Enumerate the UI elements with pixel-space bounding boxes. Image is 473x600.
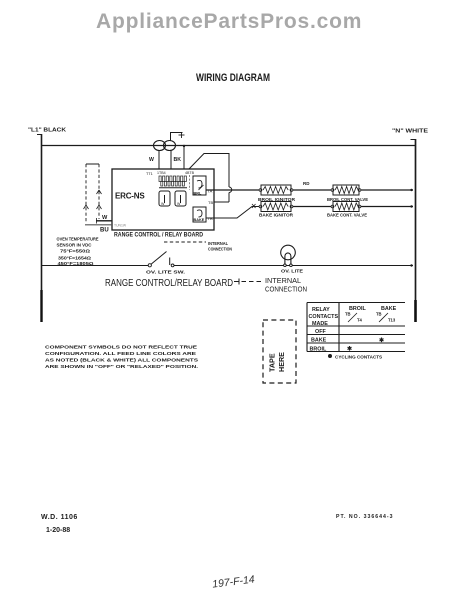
internal connection legend small (164, 241, 232, 252)
svg-text:ARE SHOWN IN "OFF" OR "RE: ARE SHOWN IN "OFF" OR "RELAXED" POSITION… (45, 364, 199, 370)
svg-text:RANGE CONTROL / RELAY BOARD: RANGE CONTROL / RELAY BOARD (114, 233, 204, 239)
svg-text:TB: TB (345, 312, 351, 317)
svg-text:CYCLING CONTACTS: CYCLING CONTACTS (335, 355, 382, 360)
note cycling contacts (328, 354, 382, 360)
svg-text:BAKE: BAKE (194, 218, 205, 222)
svg-text:TA: TA (208, 189, 213, 194)
node N label (392, 129, 428, 135)
lamp DS1 oven lite (281, 245, 296, 266)
table header bake TB/T13 (376, 306, 397, 323)
svg-text:BK: BK (174, 157, 182, 163)
wire board top to bus riser (189, 154, 232, 203)
svg-text:W: W (149, 157, 154, 163)
table header broil TB/T4 (345, 306, 366, 323)
legend internal connection text (265, 276, 307, 294)
svg-text:CONNECTION: CONNECTION (265, 285, 307, 294)
label broil control valve (327, 197, 368, 202)
note W.D. 1106 (41, 514, 78, 534)
relay board label (114, 233, 204, 239)
svg-text:T13: T13 (388, 318, 396, 323)
svg-text:CONFIGURATION. ALL FEED LIN: CONFIGURATION. ALL FEED LINE COLORS ARE (45, 351, 197, 357)
wire W drop to board (158, 151, 160, 170)
svg-text:T4: T4 (357, 318, 363, 323)
wire top feed horizontal (41, 145, 415, 147)
svg-text:TB: TB (376, 312, 382, 317)
note oven temperature sensor values (57, 237, 99, 267)
switch S1 oven lite (148, 252, 174, 267)
title WIRING DIAGRAM (196, 72, 270, 84)
svg-text:75°F=550Ω: 75°F=550Ω (60, 249, 90, 254)
label ERC-NS (115, 192, 145, 201)
svg-text:BAKE: BAKE (381, 306, 397, 312)
wire broil row left (206, 189, 259, 191)
plug P1 (159, 191, 170, 206)
wire sensor BU lead (85, 224, 127, 234)
wire bake row mid (293, 206, 331, 208)
wire BK drop to board (170, 151, 172, 170)
wire bake relay output diagonal (206, 204, 259, 218)
svg-text:"L1" BLACK: "L1" BLACK (28, 128, 67, 134)
table row BROIL with mark (310, 346, 353, 353)
svg-text:AS NOTED (BLACK & WHITE): AS NOTED (BLACK & WHITE) ALL COMPONENTS (45, 358, 199, 364)
svg-text:W: W (161, 202, 165, 206)
node L1 label (28, 128, 67, 134)
wire feed drop at board right (183, 145, 185, 169)
table header relay contacts made (309, 307, 339, 327)
svg-text:1TB4: 1TB4 (157, 171, 166, 175)
svg-text:HERE: HERE (277, 352, 286, 372)
resistor broil control valve (331, 185, 361, 195)
terminal TB mid (208, 200, 213, 205)
svg-text:OV. LITE: OV. LITE (281, 269, 304, 275)
resistor bake ignitor (259, 202, 293, 212)
relay contacts table frame (307, 303, 405, 352)
svg-text:450°F=1805Ω: 450°F=1805Ω (58, 261, 94, 266)
relay board U1 outline (112, 169, 214, 230)
svg-text:ERC-NS: ERC-NS (115, 192, 145, 201)
label broil ignitor (258, 197, 296, 202)
svg-text:RD: RD (303, 181, 310, 186)
svg-text:✱: ✱ (347, 346, 352, 353)
svg-text:OVEN TEMPERATURE: OVEN TEMPERATURE (57, 237, 99, 242)
svg-text:4BTB: 4BTB (185, 171, 195, 175)
tape here dashed box (263, 320, 296, 383)
wire stub to chassis mark (171, 132, 185, 141)
svg-text:BAKE: BAKE (311, 338, 327, 344)
svg-text:OV. LITE SW.: OV. LITE SW. (146, 270, 185, 276)
svg-text:TAPE: TAPE (268, 353, 277, 372)
resistor broil ignitor (259, 185, 293, 195)
relay K1 BROIL (193, 176, 206, 196)
relay K2 BAKE (193, 207, 206, 222)
wire broil row right to N (361, 189, 413, 191)
wire broil row mid with RD label (293, 181, 331, 190)
svg-text:AppliancePartsPros.com: AppliancePartsPros.com (96, 10, 362, 33)
legend range control relay board (105, 278, 233, 289)
svg-text:PT. NO. 336644-3: PT. NO. 336644-3 (336, 514, 394, 520)
terminal TB lower (208, 216, 213, 221)
plug P2 (175, 191, 186, 206)
sensor RT1 oven temperature dashed probe (84, 164, 102, 222)
svg-text:"N" WHITE: "N" WHITE (392, 129, 428, 135)
svg-text:CONTACTS: CONTACTS (309, 314, 339, 320)
svg-text:BU: BU (100, 228, 109, 234)
svg-text:CONNECTION: CONNECTION (208, 247, 232, 252)
svg-text:197-F-14: 197-F-14 (212, 574, 256, 591)
wire sensor W lead (96, 215, 112, 224)
svg-text:BAKE CONT. VALVE: BAKE CONT. VALVE (327, 213, 367, 218)
svg-text:BROIL: BROIL (349, 306, 366, 312)
label bake control valve (327, 213, 367, 218)
connector J1 pin strip (146, 171, 195, 190)
label oven lite switch (146, 270, 185, 276)
svg-text:MADE: MADE (312, 321, 328, 327)
wire oven lite line horizontal (41, 265, 413, 267)
svg-text:TB: TB (208, 200, 213, 205)
wire bake row right to N (361, 205, 413, 207)
svg-text:W: W (102, 215, 108, 221)
label oven lite (281, 269, 304, 275)
note PT. NO. 336644-3 (336, 514, 394, 520)
wire L1 vertical bus (37, 134, 42, 322)
svg-text:COMPONENT SYMBOLS DO NOT R: COMPONENT SYMBOLS DO NOT REFLECT TRUE (45, 345, 198, 351)
svg-text:W: W (177, 202, 181, 206)
label BK (174, 157, 182, 163)
svg-text:W.D. 1106: W.D. 1106 (41, 514, 78, 521)
wire N vertical bus (411, 139, 416, 322)
wire ov lite line junction at N (410, 264, 412, 266)
table row OFF (315, 329, 326, 335)
watermark AppliancePartsPros.com (96, 10, 362, 33)
svg-text:BRL: BRL (194, 192, 202, 196)
note component symbols (45, 345, 199, 371)
label W (149, 157, 154, 163)
svg-text:RELAY: RELAY (312, 307, 330, 313)
handwritten 197-F-14 (212, 574, 256, 591)
wire terminal TB mid to riser (214, 201, 229, 203)
svg-text:RANGE CONTROL/RELAY BOARD: RANGE CONTROL/RELAY BOARD (105, 278, 233, 289)
svg-text:BAKE IGNITOR: BAKE IGNITOR (259, 213, 294, 218)
svg-text:1-20-88: 1-20-88 (46, 527, 70, 534)
legend internal connection dashes (234, 279, 262, 285)
table row BAKE with mark (311, 337, 384, 344)
terminal TA (208, 189, 213, 194)
label bake ignitor (259, 213, 294, 218)
svg-text:TT1: TT1 (146, 172, 153, 176)
svg-text:✱: ✱ (379, 337, 384, 344)
resistor bake control valve (331, 202, 361, 212)
svg-text:WIRING DIAGRAM: WIRING DIAGRAM (196, 72, 270, 84)
svg-text:SENSOR IN VDC: SENSOR IN VDC (57, 243, 93, 248)
svg-text:INTERNAL: INTERNAL (208, 241, 228, 246)
svg-text:OFF: OFF (315, 329, 326, 335)
svg-text:TUN1W: TUN1W (114, 224, 127, 228)
svg-text:350°F=1654Ω: 350°F=1654Ω (58, 256, 91, 261)
connector plug on feed line (154, 141, 176, 151)
svg-text:BROIL: BROIL (310, 347, 327, 353)
